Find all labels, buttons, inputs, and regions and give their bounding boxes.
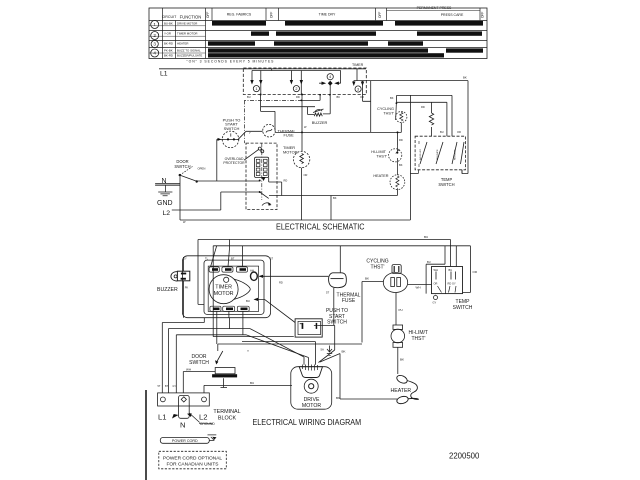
electrical schematic — [155, 63, 468, 231]
cycling right wire to temp switch — [408, 284, 432, 286]
svg-text:OR: OR — [360, 95, 364, 99]
svg-text:SWITCH: SWITCH — [327, 319, 347, 325]
svg-text:REG. FABRICS: REG. FABRICS — [227, 13, 252, 17]
svg-text:THST': THST' — [412, 336, 426, 342]
timer enclosure rounded box — [183, 256, 271, 318]
svg-text:3: 3 — [357, 88, 359, 92]
temp switch bottom terminals — [434, 296, 438, 300]
drive motor ground arrow — [327, 346, 332, 353]
wire hi-limit to heater — [397, 347, 399, 374]
wire door switch to motor — [197, 180, 260, 182]
svg-text:BU: BU — [250, 381, 254, 385]
ground symbol — [158, 185, 172, 196]
svg-text:OR: OR — [473, 270, 478, 274]
svg-text:ELECTRICAL WIRING DIAGRAM: ELECTRICAL WIRING DIAGRAM — [253, 418, 362, 427]
chart header column verticals — [212, 8, 480, 21]
timer tab feed wires — [211, 240, 243, 267]
chart grid verticals — [163, 8, 206, 59]
timer cam bars row 3 heater — [208, 41, 255, 45]
svg-text:TERMINAL: TERMINAL — [213, 409, 240, 415]
svg-text:BU: BU — [427, 260, 431, 264]
svg-text:BK: BK — [336, 396, 340, 400]
wire thermal fuse arrow to AH — [260, 275, 329, 277]
temp switch tiny rotated labels — [419, 148, 457, 160]
svg-text:POWER CORD OPTIONAL: POWER CORD OPTIONAL — [163, 455, 222, 461]
header press care divider — [387, 10, 481, 12]
circuit number circle 1 — [151, 21, 159, 29]
svg-text:WH: WH — [416, 286, 421, 290]
wire from timer box right side to temp switch — [368, 81, 469, 174]
svg-text:1: 1 — [153, 22, 156, 27]
wire top bus 2 — [213, 246, 470, 337]
push to start contacts — [222, 138, 239, 140]
heater element wiring — [396, 374, 409, 385]
svg-text:BK-RD: BK-RD — [164, 42, 173, 46]
svg-text:THST': THST' — [370, 265, 384, 271]
buzzer bottom wire — [182, 281, 184, 318]
svg-text:5T: 5T — [158, 385, 161, 388]
motor right exit step — [269, 178, 282, 196]
svg-text:BK-RD: BK-RD — [164, 53, 173, 57]
svg-text:BK: BK — [390, 96, 394, 100]
motor switch arm — [260, 192, 269, 198]
svg-text:"ON" 3 SECONDS EVERY 5 MINUTES: "ON" 3 SECONDS EVERY 5 MINUTES — [187, 60, 275, 64]
svg-text:REGULAR: REGULAR — [454, 149, 457, 160]
wire sw1 down with branches — [261, 95, 315, 131]
svg-text:BLOCK: BLOCK — [218, 415, 237, 421]
svg-text:BT: BT — [165, 385, 169, 388]
power cord optional dashed box — [159, 451, 227, 469]
motor terminal blocks — [256, 159, 267, 175]
buzzer wires — [308, 95, 331, 115]
svg-text:2: 2 — [153, 33, 156, 38]
svg-text:HEATER: HEATER — [373, 174, 388, 178]
timer top terminal tab 3 — [236, 267, 247, 272]
svg-text:BK: BK — [463, 76, 467, 80]
svg-text:SWITCH: SWITCH — [453, 305, 473, 311]
enclosure wire labels — [183, 256, 283, 284]
timer switch contact 2 — [291, 71, 301, 95]
svg-text:BU: BU — [424, 235, 428, 239]
svg-text:1: 1 — [255, 87, 257, 91]
temp switch contact 1 — [420, 142, 427, 164]
wire junction line to cycling — [275, 131, 401, 133]
page edge line — [145, 390, 147, 480]
motor triangle mark — [261, 177, 265, 181]
door switch black bar — [212, 374, 237, 377]
wire nested run A to temp switch — [397, 95, 452, 136]
hi-limit thermostat wiring — [393, 325, 403, 329]
terminal block feed wires — [204, 385, 292, 393]
cycling thermostat body — [383, 273, 407, 293]
svg-text:HEATER: HEATER — [391, 388, 412, 394]
svg-text:SWITCH: SWITCH — [174, 164, 190, 169]
wire enclosure to L1 terminal — [162, 318, 204, 393]
svg-text:5T: 5T — [326, 291, 330, 295]
svg-text:RD GY: RD GY — [448, 282, 456, 286]
svg-text:TIME DRY: TIME DRY — [319, 13, 336, 17]
wire L1 drop into timer bus — [271, 69, 273, 71]
svg-text:OFF: OFF — [269, 12, 273, 18]
circuit number circle 4 — [151, 49, 159, 57]
timer motor pointer — [234, 279, 250, 299]
svg-text:TIMER: TIMER — [352, 63, 364, 67]
circuit number circle 3 — [151, 40, 158, 47]
terminal circles — [161, 397, 166, 402]
timer switch number 4 — [327, 74, 333, 80]
wire push-to-start left down to door line — [217, 139, 222, 181]
door switch symbol — [179, 174, 181, 176]
svg-text:PK-BK: PK-BK — [164, 49, 173, 53]
motor dashed box — [246, 143, 277, 210]
svg-text:AIR FLUFF: AIR FLUFF — [419, 148, 422, 160]
push to start switch dashed circle — [222, 131, 239, 148]
door switch pin — [221, 378, 228, 387]
wire motor right to heater line — [269, 196, 397, 221]
door switch arm — [216, 351, 222, 363]
svg-text:BT: BT — [231, 256, 235, 260]
timer switch contact 1 — [252, 71, 261, 95]
svg-text:RD: RD — [284, 179, 288, 183]
motor junction dots — [259, 180, 261, 182]
wire cycling to door switch run — [218, 344, 362, 351]
cycling thermostat dashed circle — [396, 111, 407, 122]
motor centrifugal switch — [258, 147, 261, 150]
svg-text:Y: Y — [249, 131, 251, 135]
terminal block rectangle — [158, 393, 210, 406]
svg-text:PERMANENT PRESS: PERMANENT PRESS — [417, 6, 452, 10]
timer bottom tab wires — [229, 311, 243, 334]
timer internal bus wire — [252, 70, 341, 72]
svg-text:RD: RD — [421, 105, 425, 109]
svg-text:TIMER MOTOR: TIMER MOTOR — [177, 32, 198, 36]
console boundary dash-dot line — [244, 100, 302, 143]
svg-text:OFF: OFF — [206, 12, 210, 18]
wire thermal fuse left to push-to-start — [238, 131, 263, 140]
wire mid bus to push to start — [213, 336, 294, 338]
wire heater to motor line — [396, 188, 398, 195]
temp switch box wiring — [432, 267, 463, 294]
terminal arrows — [172, 413, 192, 418]
timer bottom terminal tab 2 — [223, 306, 235, 311]
svg-text:CYCLING: CYCLING — [377, 107, 394, 111]
wire sw3 output down to junction line — [363, 81, 371, 133]
thermal fuse top wire — [339, 246, 341, 273]
svg-text:BUZZER: BUZZER — [157, 287, 178, 293]
svg-text:BK: BK — [365, 277, 369, 281]
timer motor circle — [209, 275, 238, 304]
svg-text:OFF: OFF — [378, 12, 382, 18]
svg-text:OR: OR — [304, 173, 308, 177]
svg-text:DELICATE: DELICATE — [436, 149, 439, 160]
push to start right wire — [317, 325, 335, 362]
row labels — [164, 21, 202, 57]
svg-text:2200500: 2200500 — [449, 452, 480, 461]
timer cam bars row 1 drive motor — [208, 21, 483, 58]
timer top terminal tab 1 — [209, 267, 219, 272]
wire bus2 branch to temp switch top — [426, 246, 456, 294]
motor inner box — [255, 157, 269, 177]
svg-text:OR: OR — [434, 282, 438, 286]
wire to timer motor — [301, 132, 303, 151]
drive motor body — [291, 367, 332, 410]
svg-text:SWITCH: SWITCH — [189, 360, 209, 366]
timer switch number 1 — [253, 86, 259, 92]
svg-text:BUZZER/PULSATE: BUZZER/PULSATE — [177, 53, 202, 57]
timer switch contact 4 — [319, 71, 341, 95]
circuit number circle 2 — [151, 32, 159, 40]
timer motor dashed circle — [293, 151, 309, 167]
svg-text:BU-BK: BU-BK — [164, 21, 173, 25]
svg-text:4: 4 — [153, 51, 156, 56]
thermal fuse circle — [263, 124, 276, 137]
wire fan run 2 — [168, 318, 304, 393]
timer switch contact 3 — [354, 69, 368, 82]
svg-text:PROTECTOR: PROTECTOR — [223, 161, 245, 165]
push to start switch box — [295, 319, 322, 337]
svg-text:BUZZER: BUZZER — [312, 120, 328, 125]
drive motor connector ribs — [303, 365, 318, 371]
schematic wire color labels — [183, 95, 461, 224]
wire nested run B cycling to temp switch — [397, 102, 447, 136]
svg-text:BU: BU — [449, 268, 453, 272]
timer AH terminal — [251, 272, 258, 280]
cycling bottom wire to hi-limit — [395, 293, 397, 326]
svg-text:BUZZ TO SIGNAL: BUZZ TO SIGNAL — [177, 49, 201, 53]
svg-text:THST': THST' — [383, 112, 394, 116]
svg-text:FUSE: FUSE — [284, 134, 295, 138]
junction dot — [301, 131, 303, 133]
svg-text:BU: BU — [246, 299, 250, 303]
svg-text:THST': THST' — [376, 154, 387, 158]
wire fan run 3 — [176, 335, 308, 393]
timer switch number 2 — [293, 86, 299, 92]
timer dashed box — [243, 68, 366, 95]
svg-text:TIMER: TIMER — [215, 285, 232, 291]
timer bottom terminal tab 3 — [237, 306, 249, 311]
header rotated OFF labels — [206, 12, 485, 18]
svg-text:Y-OR: Y-OR — [164, 32, 171, 36]
svg-text:BK: BK — [337, 95, 341, 99]
svg-text:RD: RD — [296, 95, 300, 99]
wire L2 — [172, 192, 260, 210]
timer switch number 3 — [355, 86, 361, 92]
wire sw2 down to junction — [301, 95, 303, 133]
temp switch bottom stubs — [419, 170, 463, 174]
svg-text:WH: WH — [186, 368, 191, 372]
sw2 sw4 junction link — [301, 95, 320, 101]
wire cycling to junction — [400, 123, 402, 133]
timer cam bars row 4 buzzer — [208, 48, 428, 52]
svg-text:FUNCTION: FUNCTION — [180, 14, 202, 19]
svg-text:MOTOR: MOTOR — [302, 403, 321, 409]
temp switch contact 2 — [436, 142, 443, 164]
power cord box — [160, 438, 209, 444]
svg-text:PK: PK — [185, 286, 189, 290]
wire fan run 4 to motor — [242, 342, 316, 365]
svg-text:Y: Y — [247, 349, 249, 353]
svg-text:3: 3 — [153, 42, 156, 47]
svg-text:BK: BK — [333, 196, 337, 200]
wire timer motor to bottom line — [301, 168, 303, 220]
svg-text:GY: GY — [433, 301, 437, 305]
thermal fuse symbol — [329, 273, 347, 288]
buzzer top wire — [182, 257, 184, 271]
cycling left wire — [362, 282, 383, 343]
svg-text:FUSE: FUSE — [342, 298, 356, 304]
temp switch inner details — [436, 272, 456, 280]
wire L1 top line — [159, 68, 366, 70]
timer cam bars row 2 timer motor — [251, 31, 269, 35]
temp switch dashed box — [415, 136, 465, 170]
junction dots on timer box bottom — [260, 94, 262, 96]
terminal block N strip — [179, 396, 190, 419]
svg-text:GND: GND — [157, 200, 173, 207]
timer top terminal tab 2 — [222, 267, 233, 272]
svg-text:OR: OR — [457, 130, 461, 134]
svg-text:SWITCH: SWITCH — [438, 182, 454, 187]
svg-text:GY: GY — [173, 385, 177, 388]
svg-text:5A: 5A — [321, 348, 325, 352]
heater circle — [390, 175, 405, 190]
temp switch bias resistor — [429, 113, 433, 125]
svg-text:N: N — [180, 420, 185, 429]
wire N double line — [155, 184, 180, 186]
svg-text:CIRCUIT: CIRCUIT — [162, 15, 177, 19]
timer bottom terminal tab 1 — [210, 306, 221, 311]
svg-text:BK: BK — [400, 358, 404, 362]
motor actuator dash-dot line — [261, 143, 263, 200]
chart grid horizontals — [149, 21, 487, 48]
svg-text:PRESS CARE: PRESS CARE — [441, 13, 464, 17]
svg-text:BU: BU — [247, 95, 251, 99]
svg-text:TL: TL — [205, 256, 209, 260]
svg-text:BK: BK — [342, 350, 346, 354]
timer sequence chart table — [149, 6, 487, 64]
svg-text:2: 2 — [295, 87, 297, 91]
hi-limit thermostat circle — [389, 149, 402, 162]
drive motor bearing circle — [304, 379, 318, 393]
svg-text:BU: BU — [440, 130, 444, 134]
chart sub-row separators — [149, 26, 206, 53]
svg-text:PU: PU — [399, 308, 403, 312]
svg-text:L2: L2 — [163, 210, 171, 217]
wire junction down to hi-limit — [397, 132, 399, 145]
wire drop to bottom line — [410, 95, 418, 220]
svg-text:OFF: OFF — [481, 12, 485, 18]
svg-text:BK: BK — [399, 163, 403, 167]
svg-text:HEATER: HEATER — [177, 42, 189, 46]
svg-text:L2: L2 — [199, 413, 207, 422]
svg-text:RD: RD — [399, 138, 403, 142]
svg-text:4: 4 — [329, 75, 331, 79]
buzzer symbol — [171, 272, 178, 281]
svg-text:SWITCH: SWITCH — [224, 126, 240, 131]
motor arc contact — [262, 203, 271, 206]
svg-text:W: W — [304, 125, 307, 129]
svg-text:FOR CANADIAN UNITS: FOR CANADIAN UNITS — [167, 461, 219, 467]
electrical wiring diagram — [146, 235, 478, 480]
svg-text:DRIVE MOTOR: DRIVE MOTOR — [177, 21, 197, 25]
svg-text:POWER CORD: POWER CORD — [172, 439, 198, 443]
timer inner box — [204, 260, 264, 314]
wire heater to motor — [320, 354, 397, 400]
svg-text:RD: RD — [279, 281, 283, 285]
buzzer coil — [314, 113, 322, 116]
svg-text:MOTOR: MOTOR — [214, 291, 234, 297]
temp switch contact 4 — [461, 142, 465, 164]
thermal fuse bottom wire — [333, 288, 335, 326]
timer small circle — [224, 277, 229, 282]
svg-text:L1: L1 — [160, 71, 168, 78]
svg-text:OPEN: OPEN — [198, 167, 206, 171]
wire top bus 1 — [198, 240, 451, 305]
door switch plate — [215, 368, 235, 374]
power cord arrow — [208, 435, 217, 441]
svg-text:AH: AH — [250, 269, 254, 273]
wire arrow to BU terminal — [255, 299, 296, 322]
temp switch contact 3 — [452, 142, 457, 164]
chart outer border — [149, 8, 487, 59]
svg-text:L1: L1 — [158, 413, 166, 422]
temp switch bias resistor wire — [431, 102, 433, 136]
wire door return to block — [183, 372, 215, 393]
svg-text:W: W — [183, 220, 186, 224]
svg-text:WH: WH — [434, 268, 438, 272]
cycling switch arm — [395, 102, 398, 120]
wire door vertical to bottom line — [180, 175, 410, 220]
drive motor connector hood — [299, 367, 322, 378]
wire labels above terminal block — [158, 385, 177, 388]
svg-text:ELECTRICAL SCHEMATIC: ELECTRICAL SCHEMATIC — [276, 222, 365, 231]
ground leader and label — [189, 413, 200, 423]
door switch feed from timer — [216, 311, 218, 344]
